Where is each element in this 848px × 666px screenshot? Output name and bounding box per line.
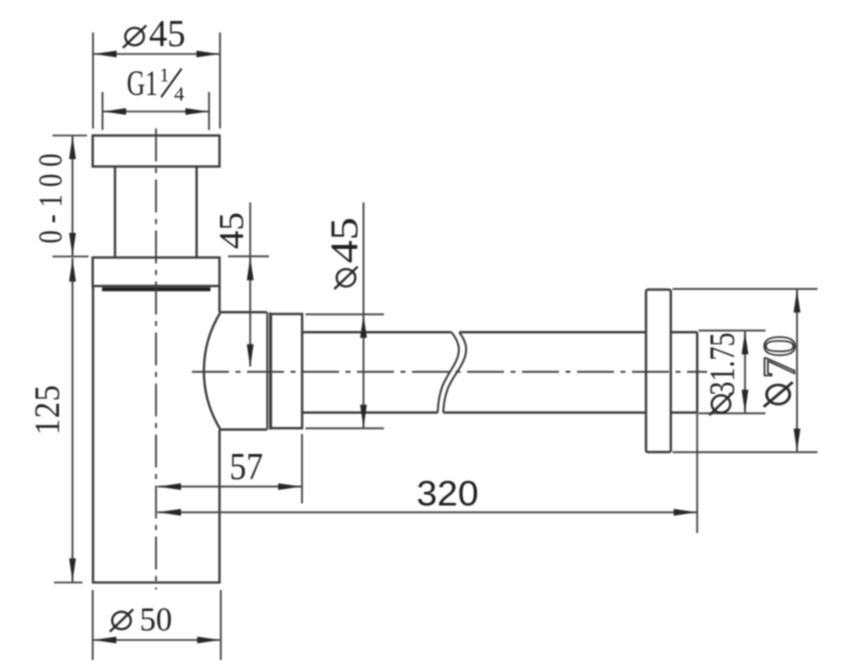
dim phi45 top: dimension line: [93, 53, 220, 55]
svg-text:50: 50: [140, 602, 173, 639]
dim 57: right extension line: [301, 434, 303, 504]
wall escutcheon flange: [646, 290, 671, 453]
horizontal pipe wall top: [302, 331, 697, 333]
dim 0-100: label: [31, 153, 69, 243]
svg-text:125: 125: [27, 385, 67, 435]
dim phi31.75: extension lines: [699, 330, 766, 332]
lower slip nut on bottle: [93, 258, 220, 287]
dim phi31.75: label: [709, 393, 732, 415]
dim phi45 top: extension lines: [92, 33, 94, 129]
outlet dome cap: [204, 312, 267, 429]
svg-text:1: 1: [160, 66, 170, 87]
dim phi45 pipe: extension lines: [306, 313, 385, 315]
inlet tube walls: [114, 167, 116, 258]
vertical centerline of bottle: [155, 129, 157, 590]
dim phi70: label: [764, 382, 793, 407]
dim 45 (drop): dimension line: [249, 203, 251, 367]
outlet coupling nut ring: [271, 314, 302, 428]
dim phi45 pipe: dimension line: [363, 203, 365, 428]
dim phi70: extension lines: [673, 288, 818, 290]
dim phi31.75: dimension line: [744, 331, 746, 413]
pipe break S-curves: [438, 332, 459, 412]
dim phi50: label: [110, 609, 133, 631]
svg-text:G1: G1: [127, 63, 158, 103]
dim 125: bottom extension tick: [54, 582, 83, 584]
dim G1 1/4: extension lines: [102, 92, 104, 130]
dim 57: dimension line: [158, 486, 302, 488]
top inlet flange (upper slip nut): [93, 136, 220, 167]
svg-text:4: 4: [174, 84, 184, 106]
dim 0-100: dimension line: [72, 136, 74, 257]
svg-text:45: 45: [149, 13, 186, 55]
dim G1 1/4: dimension line: [103, 111, 210, 113]
svg-text:45: 45: [212, 212, 251, 249]
svg-text:320: 320: [417, 475, 479, 514]
dim 320: right extension line: [696, 413, 698, 533]
dim 45 (drop): extension tick: [228, 255, 269, 257]
horizontal pipe wall bottom: [302, 411, 697, 413]
svg-text:57: 57: [230, 446, 264, 488]
thick shoulder line under nut: [102, 287, 211, 291]
svg-text:31.75: 31.75: [702, 333, 742, 396]
dim 320: dimension line: [158, 511, 698, 513]
dim 125: dimension line: [72, 258, 74, 582]
dim phi50: extension lines: [92, 590, 94, 660]
bottle right edge above outlet dome: [218, 286, 220, 312]
pipe end: [696, 332, 698, 412]
svg-text:45: 45: [323, 217, 366, 263]
dim phi70: dimension line: [796, 289, 798, 452]
dim phi45 top: label: [123, 25, 146, 47]
dim 0-100: extension ticks: [53, 135, 88, 137]
dim 125: label: [27, 385, 67, 435]
horizontal centerline of pipe: [192, 371, 707, 373]
dome rim double line: [266, 312, 268, 429]
dim phi45 pipe: label: [334, 267, 357, 289]
bottle body: [93, 286, 220, 583]
dim phi50: dimension line: [93, 639, 221, 641]
svg-text:0-100: 0-100: [31, 153, 69, 243]
svg-text:70: 70: [755, 335, 805, 378]
